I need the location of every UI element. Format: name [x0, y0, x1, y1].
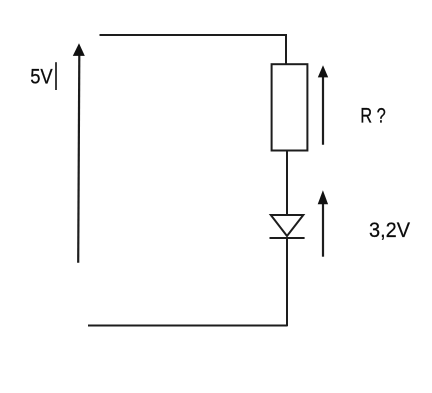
svg-text:3,2V: 3,2V [369, 218, 411, 242]
svg-text:5V: 5V [30, 66, 53, 89]
svg-text:R ?: R ? [360, 103, 386, 127]
